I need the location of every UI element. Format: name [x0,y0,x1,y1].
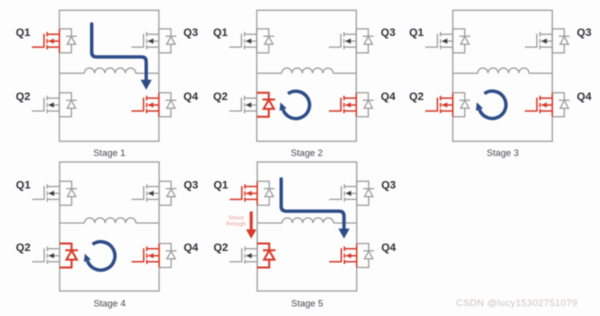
svg-text:Q2: Q2 [16,242,31,254]
svg-text:Q1: Q1 [16,27,31,39]
svg-text:Q3: Q3 [184,180,199,192]
svg-text:Q1: Q1 [409,27,424,39]
svg-text:Q4: Q4 [381,91,397,103]
svg-text:Q3: Q3 [577,27,592,39]
svg-text:Q1: Q1 [16,180,31,192]
svg-text:Q2: Q2 [213,91,228,103]
svg-text:Stage 2: Stage 2 [291,148,323,158]
svg-text:Q4: Q4 [184,242,200,254]
svg-text:Q2: Q2 [214,242,229,254]
svg-text:Q3: Q3 [183,27,198,39]
svg-text:Stage 3: Stage 3 [487,148,519,158]
svg-text:Q4: Q4 [183,91,199,103]
svg-text:Q2: Q2 [409,91,424,103]
svg-text:Q1: Q1 [213,27,228,39]
svg-text:Q1: Q1 [214,180,229,192]
svg-text:Q4: Q4 [381,242,397,254]
svg-text:Q4: Q4 [577,91,593,103]
svg-text:Stage 4: Stage 4 [94,299,126,309]
svg-text:Q3: Q3 [381,180,396,192]
svg-text:Q2: Q2 [16,91,31,103]
svg-text:Q3: Q3 [381,27,396,39]
svg-text:through: through [226,221,246,227]
svg-text:Stage 1: Stage 1 [93,148,125,158]
svg-text:Stage 5: Stage 5 [291,299,323,309]
svg-text:CSDN @lucy15302751079: CSDN @lucy15302751079 [456,298,578,309]
